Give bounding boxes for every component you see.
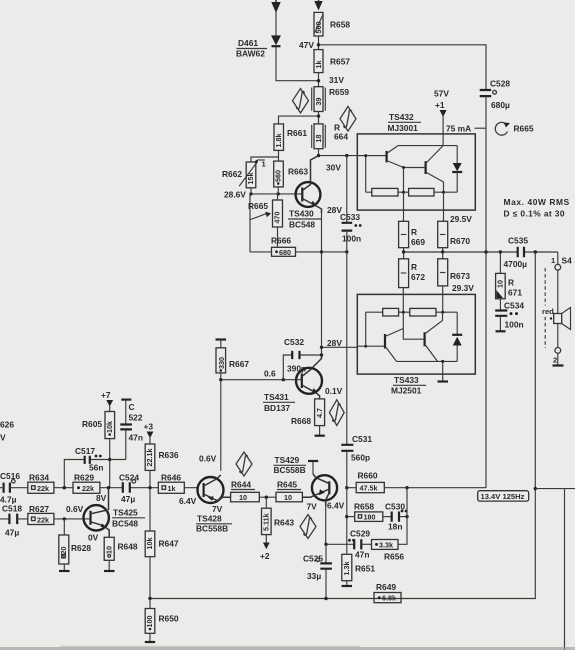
svg-text:R658: R658 [330,20,350,30]
capacitor C525 [303,544,332,598]
wire: top of D461 [275,11,277,35]
capacitor C532 [283,337,323,380]
svg-text:R629: R629 [74,473,94,483]
wire: R657 to R659, 31V node [317,73,345,87]
svg-text:47n: 47n [355,550,369,560]
TS432 internal: base rail and left drop [357,154,386,192]
wire: output branch to feedback bus [150,252,537,599]
wire: R664 to 30V node, base wire to TS432 [317,149,347,173]
wire: line to next stage right edge [535,489,575,650]
arrow: off-page feed right [314,0,322,11]
capacitor C517 [64,446,126,488]
resistor R645 [276,480,302,503]
svg-text:TS433: TS433 [394,375,419,385]
label 28V at TS430 emitter [327,205,342,215]
resistor R671 safety [496,252,523,299]
svg-text:10: 10 [496,280,505,288]
trimmer R662 [222,159,267,188]
svg-text:22k: 22k [37,515,49,524]
wire: R667 node down to TS428 collector [220,380,222,471]
resistor R643 [262,497,295,542]
wire: to R661 top [279,116,319,124]
svg-text:1.8k: 1.8k [274,134,283,148]
TS432 transistor T1 [387,146,404,168]
svg-text:10: 10 [239,493,247,502]
svg-text:672: 672 [411,272,425,282]
svg-text:100: 100 [145,616,154,628]
wire: R666 row [250,251,347,253]
svg-text:7V: 7V [212,504,223,514]
TS433 internal resistor 1 [383,308,399,316]
distortion diamond at R659 [293,89,309,113]
capacitor C524 [119,473,139,505]
svg-text:R651: R651 [355,564,375,574]
svg-text:BC548: BC548 [289,220,315,230]
wire: TS429 collector down to network [324,506,327,546]
svg-text:664: 664 [334,132,348,142]
wire: 47V bootstrap line to C528 [319,45,487,89]
TS432 transistor T2 [402,146,444,193]
svg-text:red: red [542,307,554,316]
svg-text:R649: R649 [376,582,396,592]
svg-text:100n: 100n [342,234,361,244]
svg-text:22k: 22k [37,484,49,493]
svg-text:6.4V: 6.4V [179,496,197,506]
switch S4 contact 1 [551,252,572,270]
speaker [554,270,571,347]
ground: R651 [342,585,353,587]
svg-text:0V: 0V [88,533,99,543]
svg-text:29.3V: 29.3V [452,283,474,293]
resistor R628 [59,519,92,571]
ground: C534 [496,330,506,332]
transistor TS431 [263,355,343,413]
text: left edge cut labels [0,420,14,443]
svg-text:+2: +2 [260,551,270,561]
text: power rating note [504,197,570,219]
resistor R663 [274,161,309,187]
TS433 ground stub [438,360,449,382]
diode D461 [236,35,281,58]
svg-text:28V: 28V [327,338,342,348]
darlington TS433 (MJ2501) [357,294,475,395]
svg-text:+3: +3 [144,422,154,432]
svg-text:R668: R668 [291,416,311,426]
transistor TS428 [179,454,232,534]
svg-text:R656: R656 [384,552,404,562]
TS433 internal: top wire and drops [364,286,457,348]
resistor R664 [312,123,349,149]
svg-text:10: 10 [284,493,292,502]
resistor R647 [145,488,179,599]
svg-text:MJ2501: MJ2501 [391,386,422,396]
svg-text:22.1k: 22.1k [145,449,154,467]
wire: TS432 output to R669/R670 [404,192,473,224]
svg-text:28.6V: 28.6V [224,190,246,200]
resistor R629 [73,473,100,494]
capacitor C522 [120,402,143,460]
svg-text:TS428: TS428 [197,514,222,524]
TS433 transistor T1 [385,329,403,362]
resistor R634 [28,473,54,494]
svg-text:D ≤ 0.1% at 30: D ≤ 0.1% at 30 [504,209,565,219]
wire: left drop to R666 line [249,194,251,252]
svg-text:R673: R673 [450,271,470,281]
svg-text:BC558B: BC558B [274,465,306,475]
stub: R668 bottom bar [315,426,325,436]
svg-text:C524: C524 [119,473,139,483]
svg-text:10k: 10k [105,421,114,433]
wire: TS430 emitter column down [320,209,323,355]
ground: R650 [145,641,155,643]
svg-text:4700µ: 4700µ [504,259,528,269]
svg-text:180: 180 [364,513,376,522]
svg-text:626: 626 [0,420,14,430]
arrow: off-page feed left [271,2,280,13]
resistor R651 [342,554,376,585]
transistor TS429 [274,455,345,512]
svg-text:0.6V: 0.6V [199,454,217,464]
svg-text:C533: C533 [340,212,360,222]
resistor R656 [372,540,405,562]
svg-text:R643: R643 [274,518,294,528]
svg-text:C534: C534 [504,301,524,311]
TS432 internal bottom wire [366,168,458,194]
TS433 internal diode [452,312,462,361]
svg-text:R646: R646 [161,473,181,483]
svg-text:330: 330 [217,357,226,369]
svg-text:R628: R628 [71,543,91,553]
resistor R658 [314,12,350,36]
svg-text:R: R [411,262,417,272]
svg-text:1.3k: 1.3k [342,562,351,576]
svg-text:R636: R636 [159,450,179,460]
ground: R648 [104,570,115,572]
svg-text:22k: 22k [82,484,94,493]
svg-text:5.11k: 5.11k [262,513,271,531]
svg-text:47V: 47V [299,40,314,50]
distortion diamond at R668 [329,400,344,426]
resistor R667 [216,348,249,373]
TS432 internal resistor 1 [372,188,398,196]
svg-text:R659: R659 [329,87,349,97]
svg-text:8V: 8V [96,493,107,503]
resistor R627 [28,504,54,525]
svg-text:680µ: 680µ [491,100,510,110]
resistor R660 [347,471,486,493]
svg-text:R667: R667 [229,359,249,369]
resistor R644 [231,480,260,503]
svg-text:0.1V: 0.1V [325,386,343,396]
transistor TS430 [288,156,322,230]
svg-text:47n: 47n [129,433,143,443]
svg-text:47µ: 47µ [121,494,135,504]
svg-text:0.6V: 0.6V [66,504,84,514]
svg-text:TS429: TS429 [275,455,300,465]
svg-text:522: 522 [129,413,143,423]
capacitor C528 [480,79,511,488]
resistor R649 [374,582,401,603]
TS432 internal diode [452,146,462,193]
svg-text:6.8k: 6.8k [382,594,396,603]
svg-text:MJ3001: MJ3001 [388,123,419,133]
svg-text:R: R [411,227,417,237]
wire: feedback column R658 branch [345,488,348,555]
svg-text:C: C [129,402,135,412]
svg-text:R661: R661 [287,128,307,138]
svg-text:29.5V: 29.5V [450,214,472,224]
svg-text:0.6: 0.6 [264,369,276,379]
capacitor C530 [383,502,409,532]
svg-text:1k: 1k [314,61,323,69]
svg-text:R663: R663 [288,167,308,177]
svg-text:470: 470 [273,212,282,224]
TS433 base wire entry [322,338,385,348]
node between R644 and R645 [259,496,276,499]
svg-text:C535: C535 [508,236,528,246]
svg-text:R605: R605 [82,419,102,429]
svg-text:V: V [0,433,6,443]
stub: R667 top rail bar [216,340,227,348]
distortion diamond above R644 [236,452,252,476]
svg-text:D461: D461 [238,38,258,48]
svg-text:R647: R647 [159,539,179,549]
resistor R657 [314,50,350,73]
node: C525 to feedback bus [324,597,327,600]
capacitor C533 [340,156,362,254]
resistor R658 lag [347,502,383,522]
svg-text:47µ: 47µ [5,528,19,538]
svg-text:31V: 31V [329,75,344,85]
transistor TS425 [84,488,146,543]
supply arrow +2 [260,543,270,562]
resistor R650 [145,599,179,642]
wire: output node row [402,248,558,254]
wire: R605 down to signal line [108,439,111,488]
trimmer R665 [248,194,283,247]
resistor R668 [291,399,325,426]
label: 13.4V 125Hz measurement box [478,491,529,501]
svg-text:R645: R645 [277,480,297,490]
svg-text:C518: C518 [2,504,22,514]
TS433 internal resistor 2 [410,308,436,316]
svg-text:R666: R666 [271,236,291,246]
wire: supply arrow stem into D461 branch [275,0,277,4]
svg-text:R670: R670 [450,236,470,246]
darlington TS432 (MJ3001) [357,112,475,210]
svg-text:669: 669 [411,237,425,247]
capacitor C531 [341,252,372,488]
capacitor C534 [495,299,524,331]
supply arrow +7 [101,390,113,412]
scan smudge bottom edge [0,646,575,650]
resistor R666 [271,236,296,257]
resistor R605 [82,412,115,439]
node 47V junction [317,43,320,46]
switch S4 contact 2 [553,348,561,366]
svg-text:C531: C531 [352,434,372,444]
svg-text:Max. 40W RMS: Max. 40W RMS [504,197,570,207]
svg-text:C517: C517 [75,446,95,456]
wire: lag network right column [398,488,407,545]
svg-text:R658: R658 [354,502,374,512]
resistor R670 [438,221,471,247]
svg-text:18: 18 [314,135,323,143]
distortion diamond below TS429 [300,515,316,539]
wire: main input signal line [0,486,198,489]
svg-text:+7: +7 [101,390,111,400]
svg-text:1k: 1k [168,484,176,493]
switch S4 linkage dashed [541,268,558,348]
svg-text:R660: R660 [358,471,378,481]
svg-text:BC548: BC548 [112,519,138,529]
wire: R667 bottom node to TS431 base [219,369,302,382]
wire: R659 to R664 junction [317,112,320,124]
ground: R628 [59,570,70,572]
svg-text:47.5k: 47.5k [360,484,378,493]
svg-text:TS431: TS431 [264,392,289,402]
capacitor C529 [326,529,372,560]
svg-text:671: 671 [508,288,522,298]
svg-text:C516: C516 [0,471,20,481]
stub: TS429 collector bar [308,461,318,474]
svg-text:BD137: BD137 [264,403,290,413]
svg-text:33µ: 33µ [307,571,321,581]
svg-text:R662: R662 [222,169,242,179]
svg-text:13.4V 125Hz: 13.4V 125Hz [481,492,525,501]
resistor R673 [438,252,475,293]
svg-text:10k: 10k [145,538,154,550]
svg-text:30V: 30V [326,163,341,173]
capacitor C518 [2,504,22,538]
wire: TS432 base entry [345,154,386,157]
TS432 internal resistor 2 [409,188,434,196]
TS432 collector rail [398,145,457,147]
svg-text:39: 39 [314,98,323,106]
svg-text:R634: R634 [29,473,49,483]
resistor R636 [145,444,179,488]
svg-text:56n: 56n [89,463,103,473]
svg-text:10: 10 [104,546,113,554]
svg-text:680: 680 [279,248,291,257]
svg-text:R657: R657 [330,57,350,67]
svg-text:C525: C525 [303,554,323,564]
resistor R669 [399,221,426,247]
svg-text:560: 560 [274,170,283,182]
svg-text:R: R [508,278,514,288]
svg-text:4.7: 4.7 [315,408,324,418]
svg-text:S4: S4 [562,256,573,266]
wire: R658 to R657, 47V node [299,36,319,50]
resistor R646 [158,473,184,494]
stub: C522 top bar [121,400,131,424]
svg-text:7V: 7V [307,502,318,512]
svg-text:3.3k: 3.3k [379,541,393,550]
svg-text:100n: 100n [505,320,524,330]
svg-text:75 mA: 75 mA [446,124,471,134]
svg-text:+1: +1 [435,100,445,110]
capacitor C535 [504,236,529,270]
svg-text:57V: 57V [434,89,449,99]
svg-text:R650: R650 [159,614,179,624]
svg-text:R648: R648 [118,542,138,552]
svg-text:BAW62: BAW62 [236,49,265,59]
resistor R672 [399,252,426,288]
wire: base line TS425 [0,504,91,521]
supply arrow +3 [144,422,154,445]
svg-text:R665: R665 [514,124,534,134]
svg-text:560p: 560p [351,453,370,463]
wire: D461 to 31V node [276,47,319,81]
svg-text:820: 820 [59,547,68,559]
svg-text:6.4V: 6.4V [327,501,345,511]
svg-text:TS432: TS432 [389,112,414,122]
svg-text:TS425: TS425 [113,508,138,518]
ground: S4 contact 2 [553,364,564,366]
distortion diamond at R664 [340,107,356,132]
svg-text:BC558B: BC558B [196,524,228,534]
supply arrow 57V +1 [434,89,449,146]
TS433 transistor T2 [403,312,442,361]
capacitor C516 [0,471,20,505]
label 75mA and adjust arrow R665 [446,122,534,135]
wire: base line of TS430, 28.6V [224,187,302,200]
TS433 collector rail [397,360,458,362]
resistor R661 [274,124,307,150]
svg-text:18n: 18n [388,522,402,532]
wire: TS429 base node [345,486,348,489]
svg-text:TS430: TS430 [289,209,314,219]
resistor R648 [104,537,138,570]
svg-text:C532: C532 [284,337,304,347]
svg-text:R644: R644 [231,480,251,490]
resistor R659 [312,87,350,112]
wire: R661 bottom branch to R662/R663 [251,150,279,162]
svg-text:R627: R627 [29,504,49,514]
svg-text:R665: R665 [248,201,268,211]
svg-text:C528: C528 [490,79,510,89]
svg-text:C529: C529 [350,529,370,539]
feedback bus junction left [148,597,151,600]
svg-text:2: 2 [553,356,557,365]
